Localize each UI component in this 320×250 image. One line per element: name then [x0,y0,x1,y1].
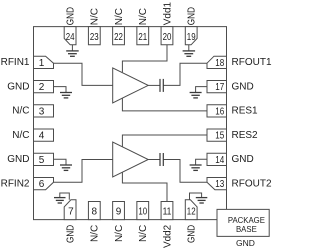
label RFIN2 (pin 6) [1,178,30,189]
svg-text:GND: GND [187,7,198,25]
svg-text:N/C: N/C [90,8,101,25]
label N/C (pin 4) [12,130,29,141]
label N/C (pin 21, rotated) [138,8,149,25]
label GND (pin 5) [7,154,29,165]
svg-text:RFIN2: RFIN2 [1,178,30,189]
svg-text:2: 2 [39,82,45,93]
pin 24 box [64,27,76,45]
pin 16 box [207,105,227,118]
svg-text:N/C: N/C [114,225,125,242]
svg-text:PACKAGE: PACKAGE [228,216,265,225]
ground at pin 12 [190,193,208,203]
svg-text:N/C: N/C [90,225,101,242]
pin 6 box [34,177,54,190]
svg-text:1: 1 [39,58,45,69]
svg-text:22: 22 [114,32,123,43]
label RES2 (pin 15) [232,130,259,141]
pin 9 box [113,202,125,220]
label GND (pin 17) [232,81,254,92]
svg-text:GND: GND [7,154,29,165]
svg-text:12: 12 [187,206,196,217]
ground at pin 5 [54,159,73,170]
label GND (pin 12, rotated) [187,225,198,243]
ground at pin 17 [190,87,207,98]
svg-text:23: 23 [90,32,99,43]
label GND (pin 19, rotated) [187,7,198,25]
svg-text:14: 14 [215,155,224,166]
svg-text:15: 15 [215,131,224,142]
svg-text:GND: GND [7,81,29,92]
svg-text:7: 7 [68,206,74,217]
pin 22 box [113,27,125,45]
pin 20 box [161,27,173,45]
svg-text:GND: GND [232,81,254,92]
ground at pin 19 [183,45,196,57]
pin 3 box [34,105,54,118]
label RFOUT2 (pin 13) [232,178,272,189]
ground at pin 2 [54,87,73,98]
pin 15 box [207,129,227,142]
svg-text:Vdd2: Vdd2 [162,224,173,248]
label GND (pin 2) [7,81,29,92]
label N/C (pin 22, rotated) [114,8,125,25]
svg-text:6: 6 [39,179,45,190]
svg-text:20: 20 [163,32,172,43]
label N/C (pin 23, rotated) [90,8,101,25]
pin 11 box [161,202,173,220]
ground at pin 14 [190,159,207,170]
svg-text:RFIN1: RFIN1 [1,57,30,68]
wire RES1 (amplifier A1 bottom to pin 16) [122,98,207,111]
svg-text:5: 5 [39,155,45,166]
svg-text:Vdd1: Vdd1 [162,2,173,26]
wire RFIN2 (pin 6 to amplifier A2 input) [54,160,113,183]
label RES1 (pin 16) [232,106,259,117]
svg-text:GND: GND [236,238,255,248]
wire Vdd1 (pin 20 down to amplifier A1 top) [122,45,167,73]
wire RES2 (amplifier A2 top to pin 15) [122,135,207,147]
label GND (package base) [236,238,255,248]
svg-text:N/C: N/C [114,8,125,25]
svg-text:GND: GND [66,225,77,243]
wire capacitor C2 to pin 13 RFOUT2 [163,160,207,183]
wire capacitor C1 to pin 18 RFOUT1 [163,63,207,85]
label RFIN1 (pin 1) [1,57,30,68]
svg-text:N/C: N/C [138,225,149,242]
svg-text:19: 19 [187,32,196,43]
svg-text:21: 21 [138,32,147,43]
IC package outline [34,27,227,220]
pin 7 box [64,200,76,220]
wire RFIN1 (pin 1 to amplifier A1 input) [54,63,113,85]
ground at pin 24 [66,45,79,57]
svg-text:GND: GND [187,225,198,243]
label N/C (pin 10, rotated) [138,225,149,242]
label GND (pin 24, rotated) [66,7,77,25]
label GND (pin 7, rotated) [66,225,77,243]
svg-text:N/C: N/C [12,130,29,141]
wire amplifier A2 output to capacitor C2 [148,159,160,161]
DC-block capacitor C2 (output 2) [160,153,163,166]
svg-text:GND: GND [232,154,254,165]
pin 1 box [34,56,54,69]
wire amplifier A1 output to capacitor C1 [148,84,160,86]
pin 2 box [34,80,54,93]
label GND (pin 14) [232,154,254,165]
label N/C (pin 9, rotated) [114,225,125,242]
svg-text:24: 24 [66,32,75,43]
pin 19 box [185,27,197,45]
svg-text:N/C: N/C [12,106,29,117]
svg-text:10: 10 [138,206,147,217]
amplifier A2 [113,142,149,177]
svg-text:9: 9 [116,206,122,217]
wire Vdd2 (pin 11 up to amplifier A2 bottom) [122,173,167,202]
label Vdd2 (pin 11, rotated) [162,224,173,248]
svg-text:11: 11 [163,206,172,217]
pin 5 box [34,153,54,166]
label N/C (pin 3) [12,106,29,117]
label Vdd1 (pin 20, rotated) [162,2,173,26]
amplifier A1 [113,68,149,103]
label N/C (pin 8, rotated) [90,225,101,242]
pin 18 box [207,56,227,69]
svg-text:GND: GND [66,7,77,25]
svg-text:16: 16 [215,106,224,117]
DC-block capacitor C1 (output 1) [160,79,163,92]
ground at pin 7 [54,193,69,203]
svg-text:N/C: N/C [138,8,149,25]
label RFOUT1 (pin 18) [232,57,272,68]
package base paddle [217,209,269,236]
svg-text:RFOUT2: RFOUT2 [232,178,272,189]
svg-text:BASE: BASE [236,225,257,234]
pin 17 box [207,80,227,93]
pin 8 box [88,202,100,220]
pin 14 box [207,153,227,166]
svg-text:13: 13 [215,179,224,190]
svg-text:8: 8 [92,206,98,217]
svg-text:4: 4 [39,131,45,142]
pin 13 box [207,177,227,190]
svg-text:3: 3 [39,106,45,117]
pin 4 box [34,129,54,142]
pin 21 box [137,27,149,45]
pin 23 box [88,27,100,45]
svg-text:18: 18 [215,58,224,69]
svg-text:17: 17 [215,82,224,93]
svg-text:RES2: RES2 [232,130,259,141]
svg-text:RES1: RES1 [232,106,259,117]
svg-text:RFOUT1: RFOUT1 [232,57,272,68]
pin 12 box [185,200,197,220]
pin 10 box [137,202,149,220]
